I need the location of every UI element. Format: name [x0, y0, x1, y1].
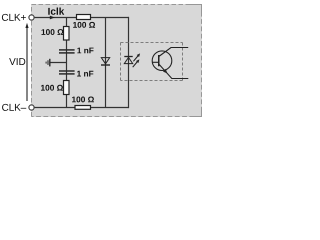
- capacitor C2 1nF plates: [59, 70, 75, 72]
- phototransistor Q1 circle: [152, 51, 172, 71]
- resistor R4 100ohm horizontal bottom: [75, 106, 91, 110]
- isolated region dashed border left: [31, 5, 33, 117]
- optocoupler dashed outline right: [182, 43, 184, 81]
- label R4 100ohm: [72, 97, 94, 103]
- wire capacitor center tap: [50, 62, 66, 64]
- isolated region dashed border right: [201, 5, 203, 117]
- capacitor C1 1nF plates: [59, 49, 75, 51]
- wire bottom rail CLK-: [33, 107, 129, 109]
- label C1 1nF: [77, 48, 93, 54]
- wire RC divider branch vertical: [66, 17, 68, 108]
- LED triangle: [124, 57, 132, 63]
- label R2 100ohm: [42, 29, 64, 35]
- phototransistor collector lead: [159, 48, 188, 57]
- isolated region dashed border bottom: [32, 116, 202, 118]
- terminal CLK-: [29, 105, 34, 110]
- phototransistor emitter lead: [159, 64, 189, 79]
- phototransistor emitter arrowhead: [163, 69, 167, 74]
- phototransistor base lead: [152, 61, 158, 63]
- LED emission arrow upper: [133, 56, 138, 62]
- terminal CLK+: [29, 15, 34, 20]
- phototransistor base bar: [158, 55, 160, 66]
- resistor R3 100ohm vertical lower: [64, 81, 70, 95]
- resistor R1 100ohm horizontal top: [77, 15, 91, 20]
- label VID: [9, 58, 25, 65]
- isolated region dashed border top: [32, 4, 202, 6]
- LED emission arrow lower: [133, 62, 138, 68]
- label CLK+: [2, 14, 26, 21]
- diode D1 clamp triangle: [101, 58, 109, 64]
- label CLK-: [2, 104, 26, 111]
- shield chassis symbol: [49, 59, 51, 67]
- optocoupler dashed outline left: [120, 43, 122, 81]
- diode D1 cathode bar: [101, 64, 110, 66]
- optocoupler dashed outline bottom: [121, 80, 183, 82]
- label R1 100ohm: [73, 22, 95, 28]
- label Iclk: [48, 7, 64, 14]
- LED cathode bar: [124, 56, 132, 58]
- arrow VID voltage: [26, 28, 28, 102]
- wire LED branch vertical: [128, 17, 130, 108]
- label R3 100ohm: [41, 85, 63, 91]
- wire diode branch vertical: [105, 17, 107, 108]
- arrow Iclk current: [50, 16, 55, 20]
- isolated region border corner solids: [189, 4, 202, 6]
- isolated region box fill: [31, 4, 202, 117]
- label C2 1nF: [77, 71, 93, 77]
- optocoupler dashed outline top: [121, 42, 183, 44]
- wire top rail CLK+: [33, 17, 129, 19]
- resistor R2 100ohm vertical upper: [64, 27, 70, 41]
